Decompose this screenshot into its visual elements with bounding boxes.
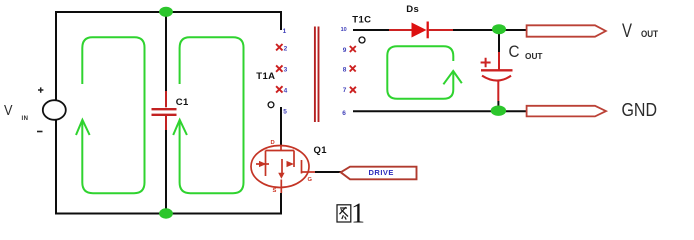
wire GND rail from pin6: [353, 110, 527, 112]
connector VOUT arrow: [527, 25, 606, 36]
wire top rail: [55, 11, 281, 13]
svg-text:Q1: Q1: [314, 145, 328, 156]
wire pin1 drop: [280, 11, 282, 30]
wire to VOUT node: [453, 29, 494, 31]
arrowhead of primary-right loop: [173, 120, 187, 135]
transformer T1A unused pin4 X: [276, 86, 282, 92]
arrowhead of primary-left loop: [76, 120, 90, 135]
wire C1 branch lower (black): [165, 130, 167, 213]
Q1 source arrow: [278, 173, 284, 179]
svg-text:10: 10: [341, 27, 347, 33]
wire VOUT node to connector: [504, 29, 527, 31]
Q1 body diode arrow: [259, 161, 267, 167]
wire Q1 source to bottom rail: [280, 193, 282, 215]
wire C1 branch upper (black): [165, 12, 167, 91]
transformer core: [315, 27, 319, 123]
voltage source VIN: [43, 100, 66, 120]
svg-text:5: 5: [283, 108, 287, 115]
svg-text:OUT: OUT: [641, 29, 658, 39]
VIN plus sign: [38, 87, 43, 92]
svg-text:DRIVE: DRIVE: [369, 168, 394, 177]
svg-text:2: 2: [284, 45, 288, 52]
transistor Q1 (power MOSFET): [251, 146, 315, 194]
diode Ds: [412, 23, 427, 38]
svg-text:C1: C1: [176, 97, 189, 108]
wire secondary top from pin10: [353, 29, 390, 31]
Q1 channel arrow: [287, 161, 295, 167]
svg-text:IN: IN: [22, 116, 29, 122]
svg-text:G: G: [308, 177, 313, 183]
svg-text:6: 6: [342, 110, 346, 117]
svg-text:GND: GND: [622, 100, 658, 120]
svg-text:1: 1: [351, 198, 365, 229]
svg-text:C: C: [509, 42, 520, 61]
wire bottom rail: [55, 213, 282, 215]
connector GND arrow: [527, 106, 606, 117]
wire COUT upper stub (black): [498, 31, 500, 52]
transformer T1A pin5 wire to Q1 drain: [280, 107, 282, 147]
transformer T1A phase dot: [268, 102, 274, 108]
connector DRIVE arrow: [341, 167, 417, 180]
green current loop secondary: [387, 46, 453, 99]
capacitor C1: [152, 91, 177, 130]
svg-text:D: D: [271, 140, 275, 146]
capacitor COUT: [481, 52, 513, 101]
svg-text:V: V: [622, 21, 632, 42]
wire left rail lower: [55, 120, 57, 214]
transformer T1C phase dot: [359, 37, 365, 43]
junction node VOUT: [492, 24, 506, 34]
transformer T1A unused pin3 X: [276, 65, 282, 71]
transformer T1A unused pin2 X: [276, 44, 282, 50]
wire cathode of Ds (red): [429, 29, 453, 31]
svg-text:T1C: T1C: [352, 15, 371, 26]
wire COUT lower stub (black): [497, 101, 499, 108]
svg-text:3: 3: [284, 67, 288, 74]
svg-text:Ds: Ds: [406, 4, 419, 15]
svg-text:1: 1: [283, 28, 287, 35]
wire left rail upper: [55, 13, 57, 100]
svg-text:OUT: OUT: [525, 52, 543, 61]
green current loop primary-left: [82, 37, 144, 193]
transformer T1C unused pin9 X: [350, 46, 356, 52]
VIN minus sign: [37, 131, 43, 133]
junction node top rail / C1: [159, 7, 173, 17]
wire Q1 gate to DRIVE: [315, 171, 341, 173]
caption figure 1 (drawn CJK glyph): [337, 205, 351, 222]
transformer T1C unused pin7 X: [350, 87, 356, 93]
wire anode of Ds (red): [389, 29, 412, 31]
svg-text:V: V: [4, 102, 13, 119]
svg-text:T1A: T1A: [256, 71, 275, 82]
arrowhead of secondary loop: [443, 71, 461, 84]
transformer T1C unused pin8 X: [350, 66, 356, 72]
svg-text:7: 7: [343, 87, 347, 94]
svg-text:4: 4: [284, 88, 288, 95]
green current loop primary-right: [180, 37, 244, 193]
junction node GND: [491, 106, 506, 116]
svg-text:8: 8: [343, 66, 347, 73]
junction node bottom rail / C1: [159, 208, 173, 218]
svg-text:9: 9: [343, 47, 347, 54]
COUT plus sign: [481, 58, 491, 67]
svg-text:S: S: [273, 188, 277, 194]
